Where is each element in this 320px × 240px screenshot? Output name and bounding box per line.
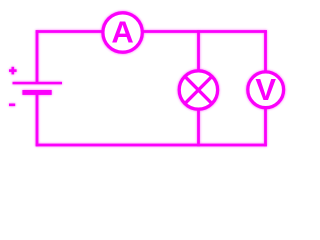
- lamp L1 circle: [179, 71, 217, 109]
- wire lamp branch upper stub: [197, 30, 200, 72]
- battery - polarity label: [9, 104, 15, 107]
- wire lamp branch lower stub: [197, 108, 200, 146]
- battery + polarity label: [9, 67, 17, 75]
- ammeter A1 circle: [103, 13, 142, 52]
- wire left upper (top-left corner down to battery + plate): [36, 30, 39, 82]
- wire right upper (top-right corner down to voltmeter): [264, 30, 267, 72]
- wire left lower (battery - plate down to bottom-left corner): [36, 94, 39, 146]
- svg-text:V: V: [255, 72, 276, 107]
- svg-text:A: A: [111, 15, 133, 50]
- voltmeter V1 circle: [248, 72, 284, 108]
- lamp L1 cross stroke 1: [185, 77, 212, 104]
- wire bottom segment: [36, 144, 267, 147]
- wire top-right segment (ammeter to top-right corner, through lamp T-junction): [142, 30, 267, 33]
- wire right lower (voltmeter down to bottom-right corner): [264, 107, 267, 146]
- battery B1 positive plate (long thin): [13, 82, 63, 85]
- battery B1 negative plate (short thick): [22, 90, 51, 95]
- wire top-left segment (battery + to ammeter): [36, 30, 103, 33]
- lamp L1 cross stroke 2: [185, 77, 212, 104]
